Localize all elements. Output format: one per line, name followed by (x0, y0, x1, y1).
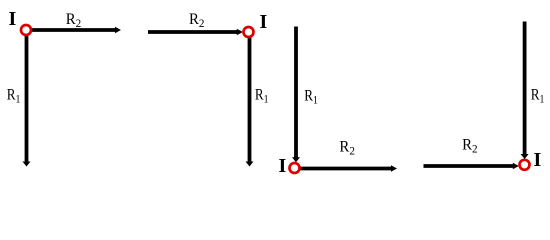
wire R2 (junction D, horizontal wire entering node from the left) (424, 164, 515, 168)
label R1 (junction A) (7, 86, 21, 105)
svg-text:R2: R2 (339, 138, 355, 158)
svg-text:I: I (260, 11, 268, 33)
svg-text:I: I (534, 149, 542, 171)
wire R2 (junction B, horizontal wire entering node from the left) (148, 30, 238, 34)
svg-text:I: I (279, 155, 287, 177)
current arrow (junction D, R1 wire, pointing down into node) (521, 154, 529, 159)
wire R1 (junction A, vertical wire from node downward) (25, 35, 29, 162)
label R2 (junction B) (189, 11, 205, 31)
label R1 (junction D) (531, 86, 545, 105)
svg-text:I: I (9, 8, 17, 30)
label R1 (junction C) (304, 87, 318, 106)
node I (junction B, open red circle at top-right corner) (244, 27, 254, 37)
current arrow (junction C, R2 wire, pointing right away from node) (391, 165, 397, 171)
wire R2 (junction A, horizontal wire from node to the right) (31, 28, 116, 32)
label R2 (junction C) (339, 138, 355, 158)
node I (junction D, open red circle at bottom-right corner) (520, 160, 530, 170)
svg-text:R1: R1 (304, 87, 318, 106)
svg-text:R2: R2 (462, 136, 478, 156)
label R1 (junction B) (255, 86, 269, 105)
svg-text:R2: R2 (189, 11, 205, 31)
node I (junction C, open red circle at bottom-left corner) (290, 163, 300, 173)
current arrow (junction B, R2 wire, pointing right into node) (237, 29, 243, 35)
svg-text:R2: R2 (66, 11, 82, 31)
svg-text:R1: R1 (531, 86, 545, 105)
current arrow (junction A, R1 wire, pointing down away from node) (23, 162, 31, 167)
svg-text:R1: R1 (255, 86, 269, 105)
wire R1 (junction D, vertical wire entering node from above) (523, 22, 527, 155)
label R2 (junction A) (66, 11, 82, 31)
wire R1 (junction C, vertical wire entering node from above) (294, 27, 298, 159)
wire R2 (junction C, horizontal wire from node to the right) (301, 167, 393, 171)
svg-text:R1: R1 (7, 86, 21, 105)
current arrow (junction C, R1 wire, pointing down into node) (292, 157, 300, 162)
wire R1 (junction B, vertical wire from node downward) (248, 37, 252, 162)
current arrow (junction A, R2 wire, pointing right away from node) (115, 27, 121, 33)
current arrow (junction B, R1 wire, pointing down away from node) (246, 162, 254, 167)
label R2 (junction D) (462, 136, 478, 156)
node I (junction A, open red circle at top-left corner) (21, 25, 31, 35)
current arrow (junction D, R2 wire, pointing right into node) (513, 163, 519, 169)
